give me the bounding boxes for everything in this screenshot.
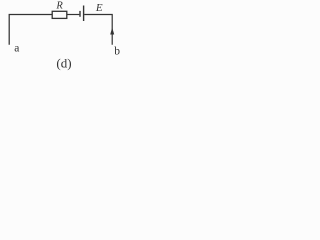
current arrow on b wire (pointing up) [110,28,114,35]
wire: battery across and down to terminal b [84,15,112,45]
resistor R1 box [52,11,67,18]
svg-text:E: E [95,2,103,14]
battery short plate (negative) [79,11,81,17]
svg-text:b: b [114,46,120,58]
svg-text:a: a [14,43,19,55]
svg-text:R: R [55,0,63,11]
wire: resistor to battery [67,14,80,16]
wire: terminal a up and across to resistor [9,15,52,45]
battery long plate (positive) [83,6,85,22]
svg-text:(d): (d) [56,55,71,70]
background [0,0,142,76]
